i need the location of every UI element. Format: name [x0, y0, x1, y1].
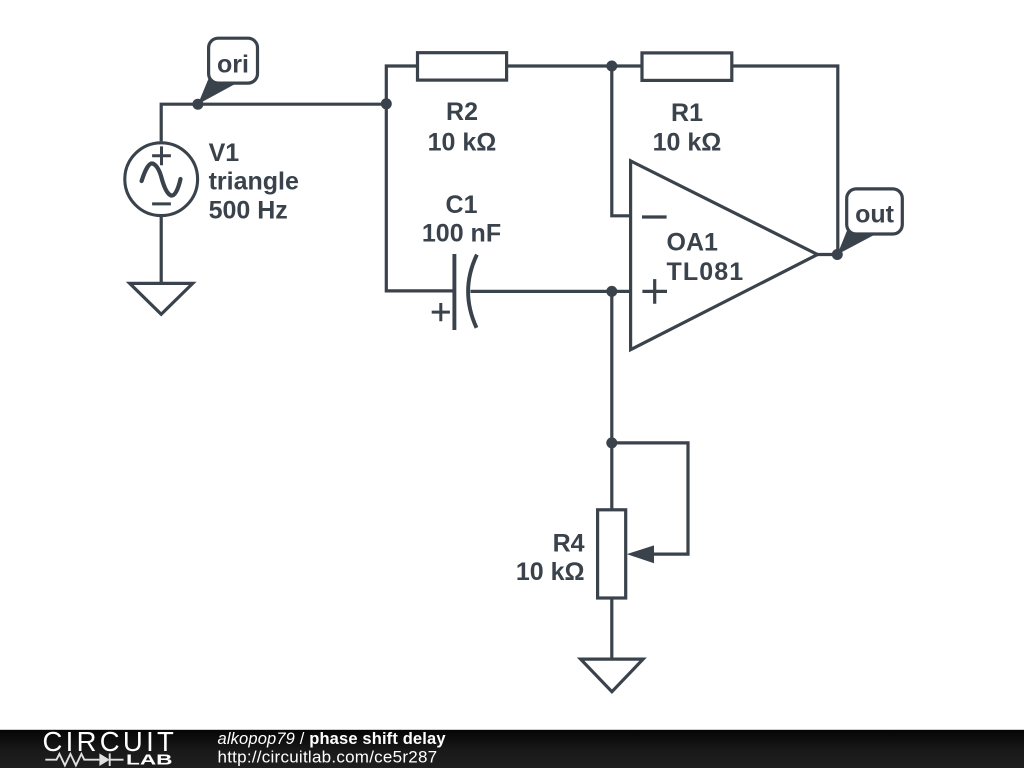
capacitor C1 [432, 254, 477, 330]
voltage source V1 [125, 143, 198, 216]
svg-text:TL081: TL081 [667, 258, 745, 286]
svg-text:10 kΩ: 10 kΩ [653, 128, 722, 156]
svg-text:R4: R4 [553, 530, 585, 558]
potentiometer R4 [598, 510, 626, 598]
svg-text:R2: R2 [446, 98, 478, 126]
node dot plus net [606, 286, 617, 297]
resistor R1 [642, 53, 732, 81]
resistor R2 [418, 53, 507, 80]
wire V1 bottom to ground [160, 217, 163, 284]
node dot output [832, 249, 843, 260]
wire left vertical + top to R2 [386, 66, 417, 104]
svg-text:http://circuitlab.com/ce5r287: http://circuitlab.com/ce5r287 [218, 748, 438, 767]
logo resistor-diode squiggle [45, 753, 123, 766]
node dot top net [606, 61, 617, 72]
wire R2 right to R1 left (through node) [507, 64, 642, 67]
svg-text:out: out [855, 201, 895, 229]
wire R4 wiper loop [612, 443, 688, 554]
wire C1 right plate to op-amp plus input [471, 290, 631, 293]
svg-text:ori: ori [217, 50, 249, 78]
wire R1 right to output vertical [732, 66, 838, 255]
svg-text:LAB: LAB [126, 752, 173, 768]
svg-text:alkopop79 / phase shift delay: alkopop79 / phase shift delay [218, 730, 447, 748]
wire R4 bottom to ground [610, 598, 613, 659]
svg-text:C1: C1 [446, 191, 478, 219]
wire ori net: V1 top to left vertical [161, 104, 386, 141]
node dot ori anchor [192, 99, 203, 110]
svg-text:R1: R1 [671, 99, 703, 127]
R4 wiper arrow [627, 545, 654, 563]
svg-text:V1: V1 [209, 139, 240, 167]
svg-text:10 kΩ: 10 kΩ [428, 128, 497, 156]
wire op-amp output [818, 253, 838, 256]
wire plus node down to R4 [610, 291, 613, 509]
svg-text:OA1: OA1 [667, 229, 719, 257]
svg-text:500 Hz: 500 Hz [209, 197, 288, 225]
wire left loop down to C1 [386, 104, 454, 291]
svg-text:10 kΩ: 10 kΩ [516, 558, 585, 586]
ground (V1) [130, 283, 193, 314]
svg-text:100 nF: 100 nF [422, 220, 501, 248]
op-amp OA1 [631, 161, 818, 350]
node dot R4 top [606, 437, 617, 448]
svg-text:triangle: triangle [209, 168, 299, 196]
flag out [837, 189, 902, 255]
node dot ori junction [381, 98, 392, 109]
CircuitLab logo [43, 726, 178, 768]
ground (R4) [581, 659, 644, 692]
flag ori [198, 38, 258, 104]
wire node to op-amp minus input [612, 66, 631, 216]
